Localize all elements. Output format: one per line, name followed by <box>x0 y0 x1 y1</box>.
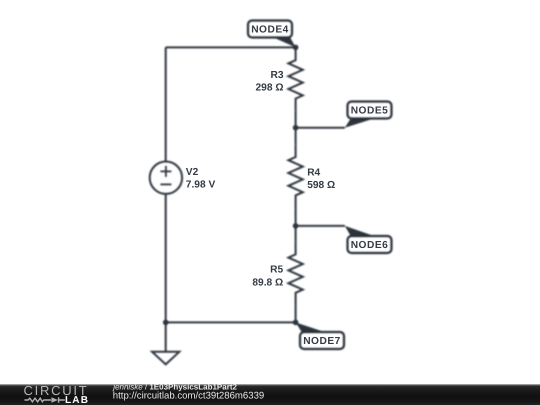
svg-text:R5: R5 <box>270 265 283 276</box>
logo resistor-diode glyph <box>25 397 65 402</box>
svg-text:NODE7: NODE7 <box>303 336 341 347</box>
node E junction dot ground <box>163 320 169 326</box>
node NODE4 callout <box>248 21 296 48</box>
node C junction dot node6 <box>293 223 299 229</box>
node NODE7 callout <box>296 322 344 349</box>
svg-text:NODE5: NODE5 <box>351 106 389 117</box>
wire left vertical lower <box>165 194 167 323</box>
svg-text:298 Ω: 298 Ω <box>256 82 284 93</box>
wire top horizontal <box>166 46 296 48</box>
wire left vertical upper <box>165 47 167 161</box>
V2 plus sign <box>160 166 171 185</box>
svg-text:LAB: LAB <box>65 395 89 405</box>
svg-text:7.98 V: 7.98 V <box>186 180 216 191</box>
svg-text:NODE6: NODE6 <box>351 240 389 251</box>
node A junction dot top <box>293 45 299 51</box>
svg-text:R3: R3 <box>270 70 283 81</box>
node NODE6 callout <box>345 226 392 253</box>
svg-text:http://circuitlab.com/ct39t286: http://circuitlab.com/ct39t286m6339 <box>113 390 264 401</box>
voltage source V2 <box>150 162 182 194</box>
wire R4 to node6 <box>295 208 297 226</box>
wire node5 stub <box>296 127 345 129</box>
wire ground stem <box>165 322 167 351</box>
svg-text:NODE4: NODE4 <box>251 25 289 36</box>
resistor R5 <box>288 242 302 306</box>
wire bottom horizontal <box>166 321 296 323</box>
wire R3 to node5 <box>295 111 297 127</box>
svg-text:V2: V2 <box>186 167 199 178</box>
resistor R3 <box>288 47 302 111</box>
node NODE5 callout <box>345 102 392 128</box>
ground <box>152 352 179 365</box>
node D junction dot node7 <box>293 320 299 326</box>
svg-text:R4: R4 <box>307 168 320 179</box>
wire node6 stub <box>296 225 345 227</box>
svg-text:598 Ω: 598 Ω <box>307 180 335 191</box>
svg-text:89.8 Ω: 89.8 Ω <box>252 278 283 289</box>
V2 minus sign <box>160 183 171 185</box>
wire node6 to R5 <box>295 226 297 242</box>
node B junction dot node5 <box>293 125 299 131</box>
resistor R4 <box>288 144 302 208</box>
wire R5 to node7 <box>295 306 297 323</box>
wire node5 to R4 <box>295 128 297 145</box>
